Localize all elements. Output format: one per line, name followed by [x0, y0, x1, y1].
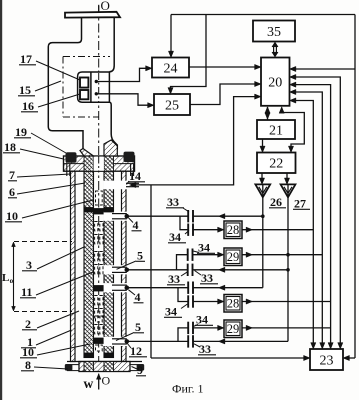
block 29a	[224, 248, 242, 266]
side tap stubs 4 5 12	[112, 213, 127, 215]
wire v5 into block 20	[292, 68, 356, 70]
block 35	[253, 21, 295, 42]
tap junction dots	[125, 214, 130, 219]
svg-text:23: 23	[320, 353, 334, 368]
wire junction to 23 bottom bus	[150, 185, 152, 358]
capacitor 33 group2	[188, 264, 193, 276]
wire top bus to 24 25 and 23	[171, 14, 355, 16]
svg-text:20: 20	[268, 75, 282, 90]
svg-text:6: 6	[9, 185, 15, 199]
capacitor 33 group4	[188, 335, 193, 347]
svg-text:14: 14	[129, 169, 141, 183]
wire block 25 to block 20	[190, 84, 260, 105]
capacitor 33 group3	[188, 282, 193, 294]
flange bolt shanks	[66, 164, 68, 177]
wire right bus v5	[354, 15, 356, 359]
wire 29a output to v2	[242, 254, 322, 256]
svg-text:35: 35	[267, 25, 281, 40]
svg-text:29: 29	[227, 322, 240, 336]
svg-text:4: 4	[135, 290, 141, 304]
centerline axis O-O	[98, 6, 100, 378]
wire pipe 14 feed and block 20	[131, 97, 260, 185]
svg-text:9: 9	[137, 363, 143, 377]
capacitor 34 group4	[188, 322, 193, 334]
svg-text:25: 25	[165, 98, 179, 113]
svg-text:5: 5	[135, 320, 141, 334]
capacitor 34 group1	[188, 224, 193, 236]
column top flange 18 19	[64, 156, 135, 171]
svg-text:34: 34	[165, 305, 177, 319]
wire 35 link 20	[273, 45, 275, 54]
block 24	[152, 58, 189, 78]
block 21	[257, 120, 295, 139]
wire valve 27 line	[287, 184, 289, 341]
svg-text:Фиг. 1: Фиг. 1	[172, 382, 203, 396]
wire 29b output to v3	[242, 327, 331, 329]
valve 26	[255, 184, 270, 197]
block 20	[261, 58, 290, 106]
svg-text:w: w	[84, 376, 94, 391]
svg-text:24: 24	[164, 61, 178, 76]
svg-text:2: 2	[25, 317, 31, 331]
flange gasket lines	[64, 163, 85, 165]
bottom flange bolt right	[137, 364, 145, 371]
block 28b	[224, 295, 242, 313]
block 23	[310, 349, 343, 370]
svg-text:16: 16	[22, 99, 34, 113]
flange neck hatching	[80, 149, 94, 157]
wire group2 branch to 29a	[177, 255, 223, 270]
capacitor 33 group1	[188, 210, 193, 222]
wire block 21 to block 20	[267, 107, 269, 120]
svg-text:17: 17	[20, 52, 32, 66]
svg-text:29: 29	[227, 250, 240, 264]
flange bolt right	[124, 152, 135, 163]
sensor housing 15	[78, 72, 110, 102]
svg-text:22: 22	[269, 157, 283, 172]
block 28a	[224, 221, 242, 239]
wire v2 to blocks 20 and 23	[292, 92, 323, 348]
svg-text:L: L	[2, 272, 9, 284]
wire block 22 to valve 27	[286, 173, 288, 183]
svg-text:27: 27	[294, 197, 306, 211]
axis tick at O	[98, 5, 100, 13]
flange bolt left	[66, 152, 77, 163]
svg-text:o: o	[10, 277, 14, 285]
wire group1 branch to 28a	[180, 216, 223, 230]
svg-text:15: 15	[19, 83, 31, 97]
svg-text:33: 33	[167, 195, 179, 209]
sensor 16	[80, 90, 88, 99]
svg-text:10: 10	[6, 209, 18, 223]
wire group4 branch to 29b	[178, 328, 223, 342]
block 29b	[224, 320, 242, 338]
wire electrode group4 lower 33	[127, 340, 288, 342]
svg-text:10: 10	[22, 345, 34, 359]
pipe bulge wall left	[48, 43, 83, 149]
pipe lower wall right	[109, 102, 117, 149]
wire block 24 to block 20	[189, 66, 260, 68]
hidden passage dash-dot box	[63, 56, 110, 58]
wire v1 to blocks 20 and 23	[292, 101, 314, 348]
dimension L0	[14, 241, 72, 243]
wire v5 into block 23	[345, 357, 356, 359]
svg-text:33: 33	[168, 272, 180, 286]
wire valve 26 line	[262, 184, 264, 287]
wire electrode group2 lower 33	[127, 269, 288, 271]
svg-text:8: 8	[25, 358, 31, 372]
block 25	[154, 94, 190, 115]
svg-text:4: 4	[133, 218, 139, 232]
svg-text:34: 34	[169, 230, 181, 244]
column bottom flange 8	[67, 361, 142, 363]
svg-text:11: 11	[21, 285, 32, 299]
sensor 17	[80, 78, 88, 88]
wire 28a output to v1	[242, 229, 313, 231]
wire sensor 17 to block 24	[95, 80, 98, 83]
capacitor 34 group2	[188, 249, 193, 261]
pipe top flange	[65, 12, 120, 18]
pipe upper wall right	[109, 18, 114, 72]
svg-text:5: 5	[137, 249, 143, 263]
column segment joints	[84, 208, 94, 213]
svg-text:33: 33	[199, 342, 211, 356]
svg-text:28: 28	[227, 223, 240, 237]
svg-text:O: O	[102, 374, 111, 388]
column inner tube 2-3	[84, 171, 94, 358]
column inner dashed elements 10 11	[95, 222, 103, 231]
wire sensor 16 to block 25	[95, 92, 98, 95]
wire electrode group1 upper 33	[127, 215, 263, 217]
wire v3 to blocks 20 and 23	[292, 85, 331, 348]
wire block 21 to block 22	[262, 139, 264, 151]
svg-text:26: 26	[270, 195, 282, 209]
wire v4 to blocks 20 and 23	[292, 77, 341, 348]
svg-text:21: 21	[269, 123, 283, 138]
svg-text:34: 34	[198, 241, 210, 255]
svg-text:28: 28	[227, 297, 240, 311]
bottom flange bolt left	[65, 364, 73, 371]
capacitor 34 group3	[188, 295, 193, 307]
centerline through flange and cluster	[98, 157, 100, 172]
column outer shell 1	[71, 171, 76, 362]
svg-text:33: 33	[201, 271, 213, 285]
pipe 14 stub	[126, 182, 139, 184]
svg-text:18: 18	[4, 140, 16, 154]
wire group3 branch to 28b	[178, 288, 223, 302]
valve 27	[281, 184, 296, 197]
svg-text:3: 3	[26, 258, 32, 272]
feed W arrow	[98, 376, 100, 390]
wire block 22 to valve 26	[261, 173, 263, 183]
block 22	[257, 153, 296, 174]
svg-text:7: 7	[9, 168, 15, 182]
wire block 20 to block 22 bypass	[282, 108, 305, 152]
svg-text:19: 19	[15, 125, 27, 139]
wire electrode group3 upper 33	[127, 287, 263, 289]
pipe upper wall left	[53, 18, 82, 43]
wire 28b output to v3	[242, 301, 331, 303]
svg-text:12: 12	[130, 344, 142, 358]
